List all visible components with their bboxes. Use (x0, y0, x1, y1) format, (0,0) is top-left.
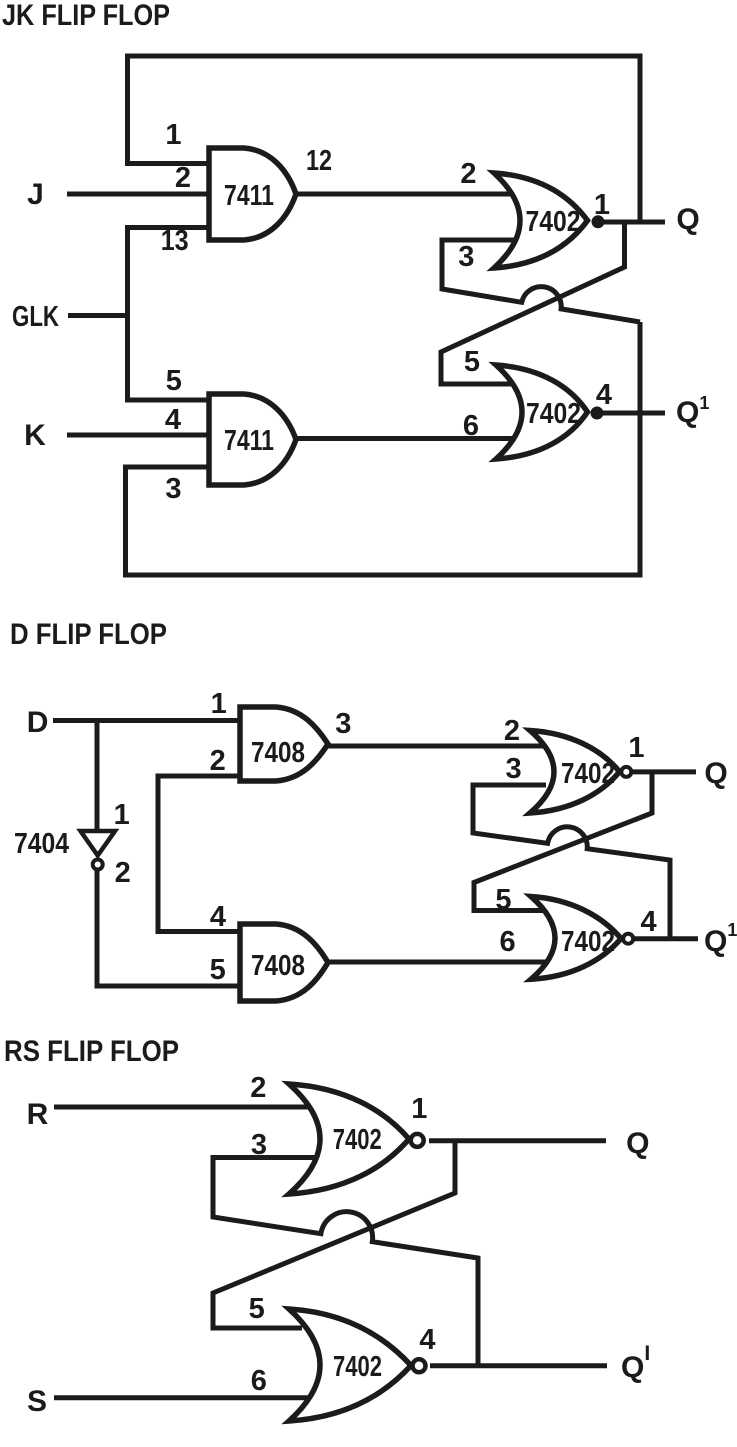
wire: 7411 lower output pin6 to NOR2 pin6 (294, 436, 516, 441)
svg-text:D: D (27, 706, 49, 739)
svg-text:2: 2 (175, 162, 191, 194)
wire: GLK vertical joining pin 13 and pin 5 (128, 228, 213, 401)
wire: Q feedback top loop from pin1 up over to Q output line (128, 56, 641, 222)
svg-text:1: 1 (114, 799, 130, 831)
bubble: NOR lower output (413, 1359, 426, 1372)
svg-text:3: 3 (251, 1129, 267, 1161)
svg-text:1: 1 (211, 688, 227, 720)
wire: Q output line (603, 220, 665, 225)
bubble: NOR upper output (411, 1134, 424, 1147)
svg-text:6: 6 (500, 926, 516, 958)
svg-text:GLK: GLK (12, 301, 59, 333)
svg-text:7408: 7408 (251, 737, 305, 769)
svg-text:6: 6 (251, 1365, 267, 1397)
svg-text:4: 4 (641, 906, 657, 938)
svg-text:1: 1 (594, 189, 610, 221)
svg-text:5: 5 (166, 365, 182, 397)
svg-text:7402: 7402 (561, 926, 615, 958)
svg-text:J: J (27, 178, 44, 211)
svg-text:1: 1 (411, 1093, 427, 1125)
junction dot: Q1 output pin4 (591, 407, 604, 420)
wire: K input to pin 4 (67, 433, 214, 438)
wire: Q1 feedback bottom loop from pin3 around to right vertical (126, 322, 641, 575)
wire: Q1 output line (633, 936, 698, 941)
svg-text:3: 3 (165, 473, 181, 505)
and-gate U2 7411 lower (209, 394, 296, 485)
svg-text:7402: 7402 (333, 1351, 382, 1383)
svg-text:3: 3 (458, 241, 474, 273)
wire: NOR pin3 stub, diagonal A with hop, down to Q1 line (473, 785, 670, 939)
svg-text:QI: QI (621, 1342, 650, 1384)
wire: 7408 lower output to NOR2 pin6 (326, 960, 548, 965)
svg-text:7402: 7402 (526, 398, 581, 430)
wire: GLK stub (68, 313, 128, 318)
bubble: NOR upper output (621, 767, 631, 777)
svg-text:Q: Q (704, 757, 727, 790)
wire: 7408 upper output pin3 to NOR pin2 (326, 744, 546, 749)
svg-text:2: 2 (250, 1072, 266, 1104)
bubble: NOR lower output (623, 934, 633, 944)
wire: Q drop diagonal B to NOR2 pin5 (213, 1141, 455, 1328)
wire: S input to pin 6 (54, 1395, 325, 1400)
svg-text:3: 3 (506, 753, 522, 785)
wire: J input to pin 2 (67, 192, 214, 197)
svg-text:2: 2 (504, 715, 520, 747)
nor-gate U3 7402 upper (494, 173, 588, 268)
svg-text:Q: Q (676, 203, 699, 236)
svg-text:7402: 7402 (526, 206, 581, 238)
svg-text:Q: Q (626, 1127, 649, 1160)
and-gate U1 7411 upper (209, 148, 296, 240)
wire: Q output line (631, 769, 696, 774)
svg-text:3: 3 (335, 708, 351, 740)
wire: Q drop diagonal B to NOR2 pin5 (441, 222, 625, 384)
svg-text:7402: 7402 (561, 758, 615, 790)
svg-text:7411: 7411 (224, 180, 274, 212)
wire: inverter output down to pin 5 (97, 869, 244, 986)
svg-text:6: 6 (463, 410, 479, 442)
and-gate U5 7408 upper (240, 707, 328, 781)
bubble: inverter output (93, 860, 103, 870)
svg-text:S: S (27, 1385, 47, 1418)
junction dot: Q output pin1 (592, 215, 605, 228)
inverter 7404 triangle (81, 831, 116, 856)
svg-text:5: 5 (464, 346, 480, 378)
wire: Q1 output line (602, 411, 665, 416)
svg-text:12: 12 (306, 145, 332, 177)
svg-text:1: 1 (628, 732, 644, 764)
svg-text:D FLIP FLOP: D FLIP FLOP (10, 618, 167, 651)
svg-text:R: R (27, 1098, 49, 1131)
svg-text:7402: 7402 (333, 1124, 382, 1156)
svg-text:7408: 7408 (251, 950, 305, 982)
svg-text:4: 4 (596, 379, 612, 411)
svg-text:K: K (24, 419, 46, 452)
wire: R input to pin 2 (54, 1105, 318, 1110)
svg-text:2: 2 (460, 158, 476, 190)
wire: NOR pin3 stub, diagonal A with hop, to Q1 vertical (442, 240, 640, 322)
svg-text:2: 2 (115, 857, 131, 889)
svg-text:7404: 7404 (14, 828, 69, 860)
wire: pin2 pin4 tie vertical (158, 776, 244, 932)
svg-text:Q1: Q1 (676, 393, 709, 429)
nor-gate U8 7402 lower (531, 897, 621, 980)
wire: 7411 upper output pin12 to NOR pin2 (293, 192, 515, 197)
svg-text:4: 4 (419, 1324, 435, 1356)
wire: D branch down to inverter (95, 721, 100, 832)
svg-text:7411: 7411 (224, 425, 274, 457)
svg-text:4: 4 (210, 901, 226, 933)
wire: D input to pin 1 (53, 718, 244, 723)
and-gate U6 7408 lower (240, 924, 328, 1001)
svg-text:5: 5 (495, 884, 511, 916)
nor-gate U4 7402 lower (496, 365, 588, 459)
nor-gate U9 7402 upper (289, 1084, 409, 1194)
wire: Q output line (429, 1138, 606, 1143)
wire: Q drop diagonal B to NOR2 pin5 (474, 772, 652, 911)
svg-text:2: 2 (210, 745, 226, 777)
nor-gate U10 7402 lower (289, 1309, 411, 1421)
svg-text:1: 1 (165, 119, 181, 151)
svg-text:Q1: Q1 (704, 920, 737, 958)
svg-text:RS FLIP FLOP: RS FLIP FLOP (4, 1035, 179, 1068)
wire: NOR pin3 stub, diagonal A with hop, down to Q1 line (213, 1158, 478, 1366)
svg-text:4: 4 (165, 404, 181, 436)
wire: Q1 output line (430, 1363, 607, 1368)
svg-text:JK FLIP FLOP: JK FLIP FLOP (2, 0, 170, 32)
svg-text:5: 5 (210, 954, 226, 986)
svg-text:5: 5 (249, 1293, 265, 1325)
nor-gate U7 7402 upper (530, 731, 620, 814)
svg-text:13: 13 (161, 225, 189, 257)
